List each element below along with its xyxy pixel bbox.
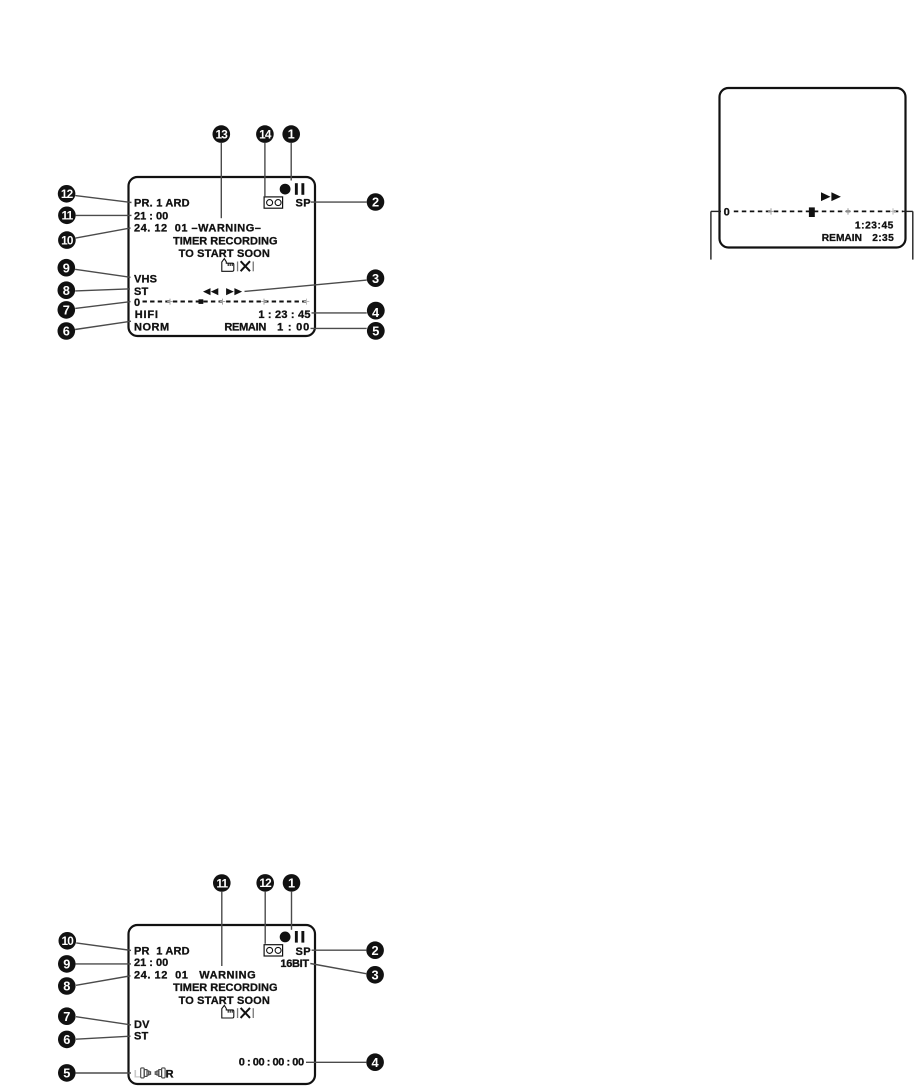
svg-text:4: 4	[372, 1055, 380, 1070]
callout 8 DV (date)	[58, 976, 131, 995]
record dot C	[280, 932, 291, 943]
bracket line right B	[912, 211, 914, 259]
svg-text:1 : 00: 1 : 00	[277, 321, 310, 333]
svg-text:REMAIN: REMAIN	[822, 233, 862, 244]
pause bars A	[295, 183, 298, 195]
svg-text:6: 6	[63, 1032, 70, 1047]
svg-text:11: 11	[61, 209, 73, 223]
svg-text:16BIT: 16BIT	[280, 958, 309, 970]
svg-text:1: 1	[288, 876, 295, 891]
record dot A	[280, 184, 291, 195]
callout 9 (tape type VHS)	[58, 259, 131, 277]
callout 11 (clock)	[58, 207, 131, 225]
speaker left icon C	[155, 1068, 165, 1078]
svg-text:0: 0	[724, 206, 730, 218]
callout 4 DV (timecode)	[306, 1053, 384, 1071]
svg-text:DV: DV	[134, 1019, 150, 1031]
svg-text:0: 0	[134, 297, 140, 309]
callout 11 DV (warning display)	[213, 874, 231, 966]
svg-text:7: 7	[63, 303, 70, 318]
cassette icon C	[264, 945, 283, 956]
callout 5 DV (audio L/R)	[58, 1064, 131, 1082]
callout 6 DV (sound mode ST)	[58, 1031, 131, 1049]
callout 13 (warning display)	[213, 125, 231, 218]
svg-text:2: 2	[372, 195, 379, 210]
bracket line left B	[710, 211, 712, 259]
svg-text:PR. 1 ARD: PR. 1 ARD	[134, 197, 190, 209]
svg-text:2: 2	[372, 943, 379, 958]
bar-X-bar icon C	[237, 1008, 254, 1018]
svg-text:3: 3	[372, 271, 379, 286]
svg-text:9: 9	[63, 957, 70, 972]
callout 1 (rec/pause marks)	[282, 125, 300, 180]
tape line right stub B	[903, 210, 913, 212]
callout 3 DV (16BIT)	[310, 964, 384, 984]
callout 14 (cassette icon)	[256, 125, 274, 196]
speaker right icon C	[141, 1068, 151, 1078]
cassette icon A	[264, 197, 283, 208]
OSD screen box VHS (top-left)	[129, 177, 316, 336]
svg-text:ST: ST	[134, 1030, 149, 1042]
svg-text:7: 7	[63, 1009, 70, 1024]
svg-text:TIMER RECORDING: TIMER RECORDING	[173, 235, 278, 247]
svg-text:0 : 00 : 00 : 00: 0 : 00 : 00 : 00	[239, 1056, 304, 1068]
pause bars C	[295, 931, 298, 943]
callout 2 (recording speed SP)	[311, 193, 385, 211]
tape ticks B	[768, 208, 896, 214]
svg-text:1: 1	[288, 127, 295, 142]
tape position dashed line A	[143, 301, 310, 303]
svg-text:VHS: VHS	[134, 274, 157, 286]
svg-text:4: 4	[372, 305, 380, 320]
tape ticks A	[167, 299, 309, 305]
svg-text:24. 12 01 WARNING: 24. 12 01 WARNING	[134, 970, 256, 982]
callout 1 DV (rec/pause marks)	[283, 874, 301, 930]
svg-text:5: 5	[63, 1066, 70, 1081]
svg-text:NORM: NORM	[134, 321, 170, 333]
svg-text:L: L	[134, 1068, 141, 1080]
OSD screen box DV (bottom-left)	[129, 925, 316, 1084]
callout 4 (counter)	[312, 302, 385, 320]
tape marker A	[199, 299, 204, 304]
rewind icon A	[203, 288, 218, 295]
svg-text:TIMER RECORDING: TIMER RECORDING	[173, 982, 278, 994]
svg-text:10: 10	[62, 934, 75, 948]
svg-text:21 : 00: 21 : 00	[134, 210, 168, 222]
svg-text:9: 9	[63, 260, 70, 275]
callout 10 DV (station name)	[59, 932, 132, 950]
callout 8 (sound mode ST)	[58, 281, 131, 299]
svg-text:13: 13	[216, 127, 229, 141]
svg-text:PR 1 ARD: PR 1 ARD	[134, 946, 190, 958]
callout 9 DV (clock)	[58, 955, 131, 973]
callout 3 (shuttle icons)	[245, 269, 385, 291]
callout 12 DV (cassette icon)	[256, 874, 274, 944]
callout 5 (remaining time)	[311, 322, 385, 340]
svg-text:21 : 00: 21 : 00	[134, 957, 168, 969]
tape marker B	[809, 207, 815, 217]
callout 10 (date)	[58, 228, 130, 249]
callout 7 (tape position)	[58, 301, 131, 319]
svg-text:6: 6	[63, 324, 70, 339]
hand icon A	[222, 259, 234, 272]
callout 7 DV (tape type DV)	[58, 1007, 131, 1025]
svg-text:24. 12 01 –WARNING–: 24. 12 01 –WARNING–	[134, 223, 261, 235]
svg-text:5: 5	[372, 324, 379, 339]
svg-text:12: 12	[61, 187, 74, 201]
OSD screen box blank (top-right)	[720, 88, 906, 248]
fast-forward icon B	[821, 192, 841, 201]
fast-forward icon A	[226, 288, 242, 295]
svg-text:HIFI: HIFI	[135, 309, 159, 321]
svg-text:8: 8	[63, 979, 70, 994]
svg-text:8: 8	[63, 283, 70, 298]
callout 6 (audio monitor NORM)	[58, 321, 132, 340]
svg-text:1:23:45: 1:23:45	[855, 221, 894, 232]
svg-text:R: R	[166, 1069, 174, 1081]
bar-X-bar icon A	[237, 261, 254, 271]
tape dashed line B	[734, 210, 903, 212]
svg-text:REMAIN: REMAIN	[224, 321, 266, 333]
tape line left stub B	[711, 210, 721, 212]
svg-text:SP: SP	[296, 198, 311, 210]
svg-text:14: 14	[259, 127, 272, 141]
hand icon C	[222, 1005, 234, 1018]
svg-text:11: 11	[216, 876, 228, 890]
svg-text:SP: SP	[296, 946, 311, 958]
svg-text:12: 12	[259, 876, 272, 890]
svg-text:3: 3	[372, 967, 379, 982]
svg-text:2:35: 2:35	[872, 233, 894, 244]
svg-text:10: 10	[61, 233, 74, 247]
callout 12 (station name)	[58, 185, 132, 203]
callout 2 DV (recording speed SP)	[312, 941, 384, 959]
svg-text:1 : 23 : 45: 1 : 23 : 45	[258, 309, 310, 321]
